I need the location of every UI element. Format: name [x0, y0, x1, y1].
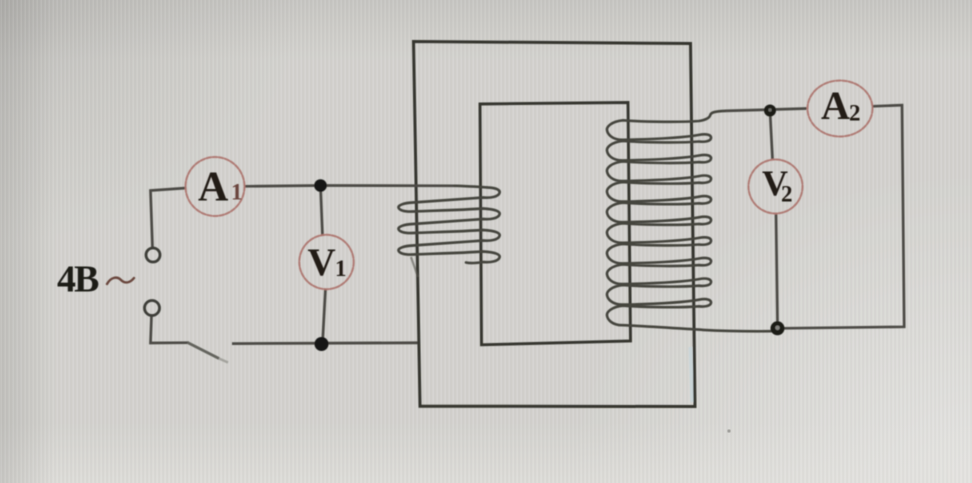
wire: bottom rail from coil to bottom node: [773, 329, 783, 331]
source top terminal: [146, 248, 160, 262]
source squiggle tilde: [107, 278, 134, 284]
primary coil lower tail: [411, 257, 418, 277]
primary coil winding L1: [398, 186, 499, 263]
voltmeter V2 circle: [749, 160, 803, 214]
secondary coil winding L2: [607, 111, 771, 331]
wire: A1 right to node and on to primary coil: [245, 184, 456, 188]
wire: V1 branch upper segment: [321, 186, 323, 236]
ammeter A1 circle: [186, 157, 245, 216]
ammeter A2 circle: [808, 81, 873, 137]
blue glare strip inside core right leg: [690, 347, 692, 402]
wire: source bottom terminal down to bottom rail: [151, 316, 190, 344]
wire: source top terminal up and right to A1: [151, 188, 187, 248]
switch blade (open): [188, 343, 220, 359]
wire: V2 branch lower segment: [776, 214, 778, 324]
node: junction dot bottom-left (V1/rail): [315, 337, 329, 351]
voltmeter V1 circle: [299, 235, 353, 289]
svg-text:1: 1: [231, 180, 243, 205]
svg-text:1: 1: [335, 256, 347, 281]
node: junction dot top-right (V2/A2): [764, 105, 776, 117]
node: junction dot bottom-right (V2/rail): [771, 321, 785, 335]
wire: A2 to top-right corner, down right side to bottom node: [783, 105, 904, 328]
svg-text:A: A: [198, 165, 229, 211]
transformer core outer rectangle: [414, 42, 696, 407]
svg-text:A: A: [821, 83, 850, 128]
wire: secondary top to node and A2: [725, 109, 807, 111]
source bottom terminal: [145, 301, 160, 316]
node: junction dot top-left (A1/V1): [314, 179, 327, 192]
transformer core inner window rectangle: [480, 103, 631, 345]
wire: V1 branch lower segment: [323, 289, 326, 344]
svg-text:2: 2: [849, 101, 861, 126]
wire: V2 branch upper segment: [770, 111, 773, 159]
dust speck: [727, 429, 730, 432]
svg-text:V: V: [308, 241, 336, 284]
svg-text:2: 2: [781, 182, 793, 207]
svg-text:4B: 4B: [57, 259, 99, 301]
wire: bottom rail from switch past V1 node to core: [232, 341, 418, 345]
